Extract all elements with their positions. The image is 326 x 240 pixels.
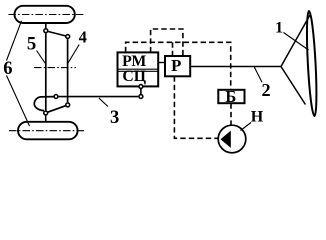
- kingpin stub wheel W2: [45, 116, 47, 122]
- steering arm A1-A2: [48, 32, 65, 36]
- kingpin stub wheel W1: [45, 23, 47, 29]
- arm C-E: [48, 106, 65, 112]
- rod 5 (left tie rod): [45, 33, 47, 110]
- pump N (circle): [218, 125, 246, 153]
- hydraulic line B to pump (dashed): [230, 103, 232, 124]
- leader 6 lower: [7, 76, 30, 127]
- joint A2: [66, 35, 70, 39]
- divider RM/SC: [118, 68, 159, 70]
- ball joint pair under SC box: [140, 87, 142, 96]
- svg-text:СЦ: СЦ: [122, 68, 146, 85]
- joint E: [66, 103, 70, 107]
- hydraulic stub H1 to R box (dashed): [172, 42, 174, 56]
- hydraulic line R box to pump (dashed): [174, 76, 218, 138]
- steering wheel rim: [305, 11, 318, 116]
- wheel W1 (top left tire, top view): [15, 6, 75, 23]
- leader 3: [99, 98, 108, 106]
- svg-text:2: 2: [261, 80, 270, 100]
- spoke upper: [281, 14, 311, 67]
- axle center line (dash-dot): [34, 67, 76, 69]
- joint A1: [44, 29, 48, 33]
- wheel W2 (bottom left tire, top view): [18, 122, 78, 140]
- pitman arm hook C-D: [34, 97, 54, 111]
- drag link 3: [59, 96, 139, 98]
- hydraulic bypass loop RM to R (dashed): [151, 29, 183, 56]
- svg-text:Б: Б: [225, 87, 236, 106]
- svg-text:6: 6: [3, 59, 12, 79]
- pump N triangle: [221, 131, 231, 148]
- svg-text:Р: Р: [171, 56, 181, 75]
- leader 4: [68, 45, 79, 64]
- leader 1: [284, 33, 309, 51]
- leader 5: [37, 51, 46, 64]
- connector RM to R: [158, 62, 165, 64]
- box RM/SC (steering gear / power cylinder): [118, 52, 159, 86]
- leader N: [241, 123, 252, 131]
- spoke lower: [281, 67, 305, 105]
- joint D (drag link ball): [54, 95, 58, 99]
- svg-text:3: 3: [110, 107, 119, 128]
- box R (distributor): [165, 56, 190, 76]
- rod 4 (right tie rod): [67, 39, 69, 102]
- axis of wheel W2 (dash-dot): [9, 130, 86, 132]
- hydraulic line: RM top to B via top run (dashed): [126, 42, 231, 89]
- svg-text:4: 4: [79, 28, 87, 47]
- joint C (bottom knuckle): [44, 111, 48, 115]
- box B (reservoir): [218, 90, 244, 103]
- svg-text:Н: Н: [251, 109, 264, 126]
- svg-text:5: 5: [27, 33, 36, 54]
- leader 6 upper: [7, 21, 22, 61]
- svg-text:1: 1: [275, 18, 283, 37]
- leader 2: [254, 67, 262, 82]
- steering shaft 2: [190, 66, 281, 68]
- axis of wheel W1 (dash-dot): [8, 14, 84, 16]
